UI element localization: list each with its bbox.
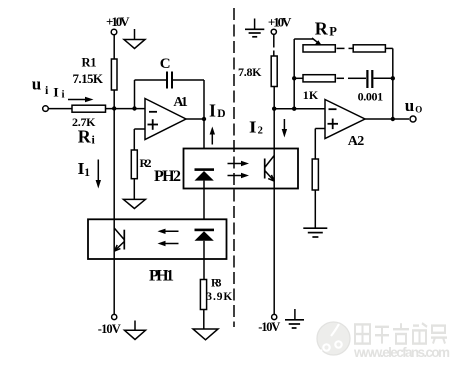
svg-text:PH2: PH2 — [154, 168, 181, 185]
svg-text:R: R — [315, 18, 329, 38]
svg-text:0.001: 0.001 — [358, 90, 384, 104]
svg-text:I: I — [249, 118, 257, 137]
svg-text:-10V: -10V — [98, 322, 121, 336]
svg-text:A2: A2 — [348, 134, 365, 149]
svg-text:2: 2 — [258, 125, 263, 136]
svg-text:O: O — [415, 105, 422, 115]
svg-text:A1: A1 — [173, 95, 188, 110]
svg-text:R2: R2 — [140, 156, 152, 170]
svg-text:PH1: PH1 — [149, 268, 174, 285]
svg-text:-10V: -10V — [258, 320, 280, 334]
svg-text:+10V: +10V — [268, 15, 292, 30]
svg-text:I: I — [209, 101, 216, 121]
svg-text:D: D — [217, 108, 225, 120]
svg-text:P: P — [329, 25, 337, 39]
svg-text:u: u — [32, 75, 41, 94]
svg-text:1: 1 — [84, 167, 90, 179]
svg-text:+10V: +10V — [106, 14, 130, 29]
svg-text:1K: 1K — [303, 88, 319, 102]
svg-text:R: R — [78, 127, 92, 147]
svg-text:u: u — [405, 96, 414, 115]
svg-text:i: i — [62, 89, 65, 101]
svg-text:www.elecfans.com: www.elecfans.com — [353, 345, 450, 360]
svg-text:R3: R3 — [211, 278, 222, 290]
svg-text:7.8K: 7.8K — [238, 65, 262, 79]
svg-text:R1: R1 — [82, 56, 97, 70]
svg-text:C: C — [160, 56, 171, 72]
svg-text:I: I — [53, 86, 59, 100]
svg-text:7.15K: 7.15K — [73, 71, 104, 86]
svg-text:3.9K: 3.9K — [206, 291, 232, 303]
